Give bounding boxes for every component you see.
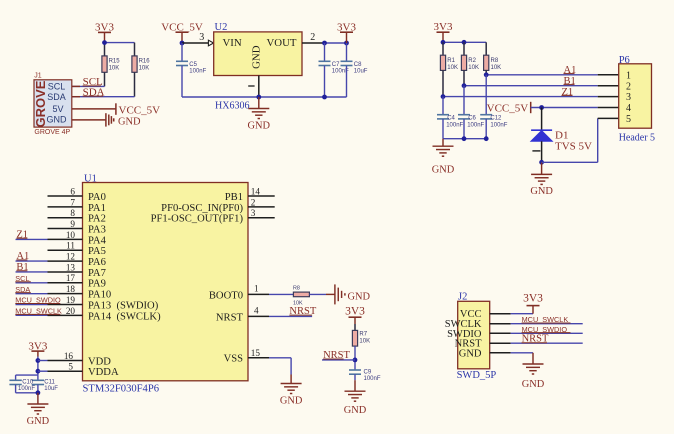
svg-text:R2: R2	[468, 58, 476, 64]
svg-text:TVS 5V: TVS 5V	[555, 140, 592, 152]
svg-text:GND: GND	[248, 120, 271, 131]
svg-text:100nF: 100nF	[189, 69, 206, 75]
svg-text:100nF: 100nF	[446, 123, 463, 129]
svg-text:PA3: PA3	[88, 224, 106, 235]
svg-text:PF0-OSC_IN(PF0): PF0-OSC_IN(PF0)	[161, 203, 243, 214]
svg-text:C7: C7	[332, 62, 340, 68]
svg-text:R1: R1	[447, 58, 455, 64]
svg-text:3: 3	[626, 92, 631, 103]
svg-text:GND: GND	[348, 292, 371, 303]
svg-text:100nF: 100nF	[490, 123, 507, 129]
svg-text:STM32F030F4P6: STM32F030F4P6	[83, 384, 160, 395]
svg-text:5: 5	[626, 114, 631, 125]
svg-text:C8: C8	[354, 62, 362, 68]
svg-text:VDDA: VDDA	[88, 367, 119, 378]
svg-text:10: 10	[66, 230, 76, 240]
svg-text:10K: 10K	[447, 65, 458, 71]
svg-text:BOOT0: BOOT0	[209, 290, 243, 301]
svg-text:GND: GND	[530, 186, 553, 197]
svg-text:R8: R8	[293, 286, 300, 292]
svg-text:C11: C11	[44, 380, 55, 386]
svg-text:U2: U2	[215, 22, 228, 33]
svg-text:9: 9	[70, 219, 75, 229]
svg-text:5: 5	[68, 362, 73, 372]
svg-text:GND: GND	[344, 405, 367, 416]
svg-text:10uF: 10uF	[44, 386, 58, 392]
svg-text:GND: GND	[47, 115, 68, 125]
svg-text:PA6: PA6	[88, 257, 106, 268]
svg-text:R16: R16	[139, 59, 151, 65]
svg-text:VSS: VSS	[224, 354, 244, 365]
svg-text:GND: GND	[459, 348, 482, 359]
svg-text:PA0: PA0	[88, 192, 106, 203]
svg-text:SDA: SDA	[47, 92, 66, 102]
svg-text:PA5: PA5	[88, 246, 106, 257]
svg-text:NRST: NRST	[216, 312, 244, 323]
svg-text:PA13 (SWDIO): PA13 (SWDIO)	[88, 300, 159, 311]
svg-text:PA2: PA2	[88, 214, 106, 225]
svg-text:11: 11	[66, 241, 75, 251]
svg-text:100nF: 100nF	[18, 386, 35, 392]
svg-text:2: 2	[251, 197, 256, 207]
svg-text:2: 2	[310, 32, 315, 43]
svg-text:12: 12	[66, 252, 76, 262]
svg-text:3V3: 3V3	[434, 21, 453, 33]
svg-text:3V3: 3V3	[523, 293, 543, 305]
svg-text:GND: GND	[432, 164, 455, 175]
svg-text:C9: C9	[364, 370, 372, 376]
svg-text:R15: R15	[109, 59, 121, 65]
svg-text:100nF: 100nF	[364, 376, 381, 382]
svg-text:A1: A1	[564, 65, 577, 76]
svg-text:C4: C4	[447, 116, 455, 122]
svg-text:4: 4	[254, 305, 259, 315]
svg-text:PA14 (SWCLK): PA14 (SWCLK)	[88, 311, 161, 322]
svg-text:3: 3	[199, 32, 204, 43]
svg-text:C6: C6	[468, 116, 476, 122]
svg-text:C10: C10	[22, 380, 34, 386]
svg-text:HX6306: HX6306	[215, 101, 249, 112]
svg-text:7: 7	[70, 197, 75, 207]
svg-text:17: 17	[66, 273, 76, 283]
svg-text:5V: 5V	[52, 104, 63, 114]
svg-text:VIN: VIN	[223, 37, 242, 49]
svg-text:VCC_5V: VCC_5V	[487, 102, 529, 114]
svg-text:SCL: SCL	[48, 82, 66, 92]
svg-text:SWD_5P: SWD_5P	[457, 370, 497, 381]
svg-text:C5: C5	[189, 62, 197, 68]
svg-text:GND: GND	[118, 117, 141, 128]
svg-text:GND: GND	[522, 379, 545, 390]
svg-text:B1: B1	[564, 76, 576, 87]
svg-text:PA1: PA1	[88, 203, 106, 214]
svg-text:8: 8	[70, 208, 75, 218]
svg-text:14: 14	[251, 186, 261, 196]
svg-text:10K: 10K	[139, 65, 150, 71]
svg-text:PA9: PA9	[88, 279, 106, 290]
svg-text:15: 15	[251, 348, 261, 358]
svg-text:10K: 10K	[109, 65, 120, 71]
svg-text:PB1: PB1	[225, 192, 243, 203]
svg-text:3V3: 3V3	[345, 306, 365, 318]
svg-text:J1: J1	[34, 73, 42, 80]
svg-text:GND: GND	[280, 395, 303, 406]
svg-text:16: 16	[64, 351, 74, 361]
svg-text:VCC_5V: VCC_5V	[119, 104, 161, 116]
svg-text:10uF: 10uF	[354, 69, 368, 75]
svg-text:1: 1	[626, 70, 631, 81]
svg-text:10K: 10K	[491, 65, 502, 71]
svg-text:Header 5: Header 5	[619, 133, 655, 144]
svg-text:10K: 10K	[468, 65, 479, 71]
svg-text:10K: 10K	[359, 338, 370, 344]
svg-text:GND: GND	[27, 416, 50, 427]
svg-text:PF1-OSC_OUT(PF1): PF1-OSC_OUT(PF1)	[151, 214, 244, 225]
svg-text:VDD: VDD	[88, 356, 111, 367]
svg-text:100nF: 100nF	[467, 123, 484, 129]
svg-text:GND: GND	[250, 45, 262, 69]
svg-text:2: 2	[626, 81, 631, 92]
svg-text:19: 19	[66, 295, 76, 305]
svg-text:R7: R7	[359, 332, 367, 338]
svg-text:P6: P6	[619, 55, 630, 66]
svg-text:20: 20	[66, 306, 76, 316]
svg-text:6: 6	[70, 186, 75, 196]
svg-text:4: 4	[626, 103, 631, 114]
svg-text:18: 18	[66, 284, 76, 294]
svg-text:C12: C12	[490, 116, 502, 122]
svg-text:VOUT: VOUT	[267, 37, 297, 49]
svg-text:R8: R8	[491, 58, 499, 64]
svg-text:3: 3	[251, 208, 256, 218]
svg-text:PA10: PA10	[88, 290, 111, 301]
svg-text:GROVE 4P: GROVE 4P	[34, 129, 70, 136]
svg-text:1: 1	[254, 283, 259, 293]
svg-text:Z1: Z1	[562, 87, 574, 98]
svg-text:PA7: PA7	[88, 268, 106, 279]
svg-text:13: 13	[66, 262, 76, 272]
svg-text:PA4: PA4	[88, 235, 107, 246]
